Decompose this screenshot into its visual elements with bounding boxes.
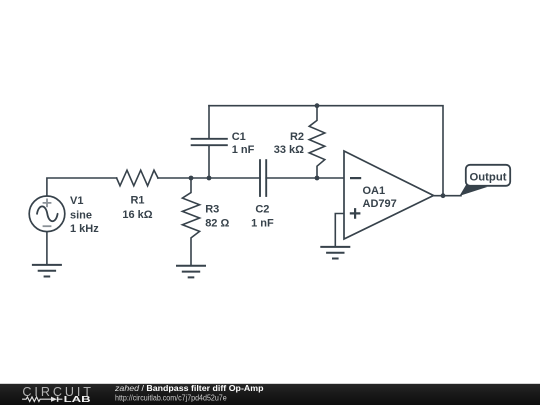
svg-text:C2: C2 <box>255 204 269 216</box>
svg-text:C1: C1 <box>232 131 246 143</box>
svg-text:OA1: OA1 <box>363 185 386 197</box>
svg-text:1 nF: 1 nF <box>251 218 274 230</box>
svg-text:16 kΩ: 16 kΩ <box>122 209 152 221</box>
svg-text:R1: R1 <box>130 194 144 206</box>
svg-text:1 nF: 1 nF <box>232 144 255 156</box>
svg-text:AD797: AD797 <box>363 198 397 210</box>
svg-text:V1: V1 <box>70 195 83 207</box>
svg-text:1 kHz: 1 kHz <box>70 223 99 235</box>
svg-text:zahed / Bandpass filter diff O: zahed / Bandpass filter diff Op-Amp <box>114 384 264 393</box>
svg-text:Output: Output <box>469 172 506 184</box>
svg-text:sine: sine <box>70 210 92 222</box>
svg-text:R3: R3 <box>205 204 219 216</box>
svg-text:LAB: LAB <box>64 395 91 404</box>
svg-text:R2: R2 <box>290 131 304 143</box>
svg-text:33 kΩ: 33 kΩ <box>274 144 304 156</box>
svg-text:82 Ω: 82 Ω <box>205 218 229 230</box>
svg-text:http://circuitlab.com/c7j7pd4d: http://circuitlab.com/c7j7pd4d52u7e <box>115 393 227 402</box>
